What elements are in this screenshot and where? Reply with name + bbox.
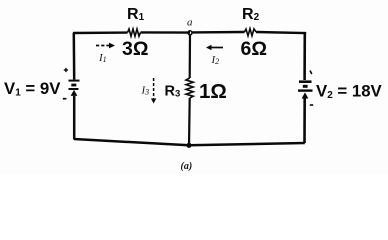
svg-text:R1: R1	[127, 6, 145, 23]
svg-text:R2: R2	[242, 6, 260, 23]
svg-text:a: a	[187, 17, 193, 29]
wire top-left horizontal	[74, 33, 128, 34]
node a junction dot	[188, 31, 192, 35]
svg-text:I2: I2	[211, 54, 220, 66]
wire middle vertical lower	[188, 98, 191, 146]
wire bottom	[74, 139, 305, 145]
wire R1 to node a	[141, 31, 191, 34]
svg-text:V2 = 18V: V2 = 18V	[316, 82, 383, 102]
wire middle vertical upper	[189, 34, 192, 78]
battery V1	[69, 81, 80, 96]
resistor R2	[245, 29, 257, 36]
svg-text:R3: R3	[165, 84, 181, 100]
battery V2 minus sign	[310, 104, 313, 106]
battery V2 plus tick	[310, 71, 312, 75]
battery V1 plus sign	[64, 68, 68, 72]
resistor R1	[128, 29, 141, 36]
current arrow I1	[96, 43, 115, 49]
battery V1 minus sign	[63, 98, 67, 100]
svg-text:(a): (a)	[181, 161, 193, 172]
svg-text:3Ω: 3Ω	[122, 38, 148, 60]
svg-text:6Ω: 6Ω	[241, 38, 267, 60]
wire left vertical lower	[73, 96, 76, 140]
wire node a to R2	[192, 31, 245, 34]
wire left vertical upper	[73, 34, 76, 80]
svg-text:1Ω: 1Ω	[199, 80, 227, 103]
svg-text:I1: I1	[98, 52, 107, 64]
current arrow I3	[151, 78, 156, 104]
current arrow I2	[206, 45, 223, 51]
resistor R3	[186, 78, 193, 98]
wire R2 to top-right corner	[256, 32, 305, 34]
svg-text:I3: I3	[141, 85, 150, 97]
svg-text:V1 = 9V: V1 = 9V	[4, 79, 61, 99]
wire right vertical upper	[303, 33, 306, 80]
bottom junction dot	[186, 143, 191, 148]
battery V2	[298, 82, 313, 99]
wire right vertical lower	[303, 97, 306, 144]
